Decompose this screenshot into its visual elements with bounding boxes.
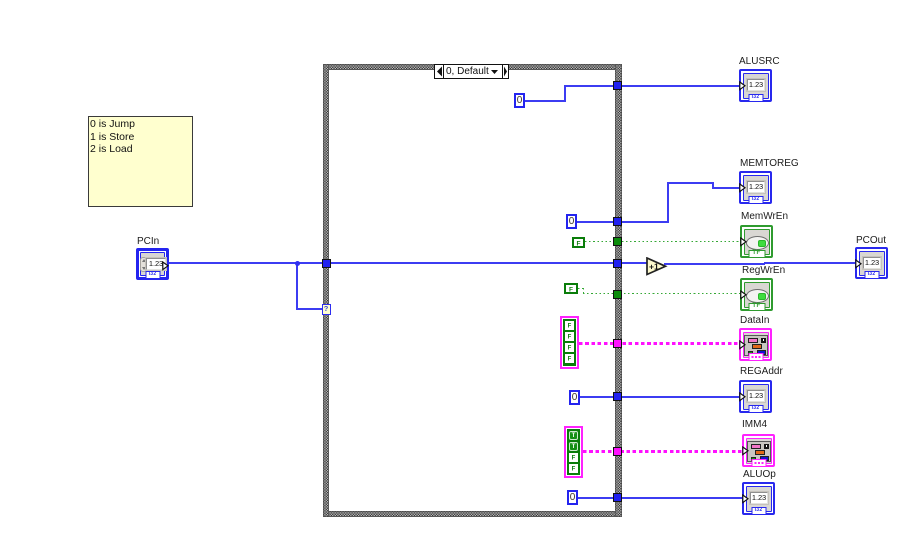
wire MEMTOREG const to tunnel [577,221,613,223]
svg-text:+1: +1 [649,262,659,272]
terminal RegWrEn (boolean indicator) [740,278,773,311]
wire PC main: PCIn to +1 [169,262,647,264]
constant 0 (ALUOp) [567,490,578,505]
cluster constant TTFF (IMM4) [564,426,583,478]
wire RegWrEn vertical jog [583,288,584,295]
wire PC branch vertical to selector [296,262,298,310]
label MEMTOREG [740,158,799,169]
wire MEMTOREG horizontal mid [667,182,714,184]
tunnel ALUOp (blue) [613,493,622,502]
label IMM4 [742,419,767,430]
constant F (MemWrEn) [572,237,585,248]
terminal ALUOp (numeric indicator I32) [742,482,775,515]
wire PC main: +1 to jog [664,263,765,265]
constant 0 (MEMTOREG) [566,214,577,229]
terminal ALUSRC (numeric indicator I32) [739,69,772,102]
tunnel PC left (blue) [322,259,331,268]
tunnel REGAddr (blue) [613,392,622,401]
wire PC main: jog to PCOut [764,262,856,264]
label RegWrEn [742,265,785,276]
constant 0 (ALUSRC) [514,93,525,108]
terminal PCIn (numeric control I32) [136,248,169,280]
tunnel MEMTOREG (blue) [613,217,622,226]
label REGAddr [740,366,783,377]
terminal DataIn (cluster indicator) [739,328,772,361]
wire RegWrEn stub [578,288,585,289]
tunnel DataIn (magenta) [613,339,622,348]
wire ALUSRC vertical [564,85,566,102]
wire junction dot [295,261,300,266]
label ALUOp [743,469,776,480]
comment box "0 is Jump / 1 is Store / 2 is Load" [88,116,193,207]
selector tunnel "?" [322,304,331,315]
wire DataIn dashed magenta [579,342,740,345]
wire ALUSRC const stub [525,100,566,102]
wire PC branch horizontal to selector [296,308,323,310]
case structure top border [323,64,622,70]
terminal REGAddr (numeric indicator I32) [739,380,772,413]
terminal MemWrEn (boolean indicator) [740,225,773,258]
case structure bottom border [323,511,622,517]
constant 0 (REGAddr) [569,390,580,405]
wire ALUOp blue [578,497,742,499]
cluster constant FFFF (DataIn) [560,316,579,369]
label PCIn [137,236,159,247]
increment +1 node [646,257,668,277]
tunnel PC right (blue) [613,259,622,268]
label DataIn [740,315,769,326]
constant F (RegWrEn) [564,283,578,294]
tunnel MemWrEn (green) [613,237,622,246]
wire MEMTOREG vertical jog [712,182,714,189]
wire MEMTOREG to terminal [712,187,740,189]
wire IMM4 dashed magenta [583,450,742,453]
case structure right border [615,64,622,517]
wire MEMTOREG tunnel to elbow [622,221,669,223]
case selector label "0, Default" [434,64,509,79]
wire MEMTOREG vertical up [667,182,669,223]
terminal PCOut (numeric indicator I32) [855,247,888,279]
wire ALUSRC horizontal to terminal [564,85,740,87]
tunnel RegWrEn (green) [613,290,622,299]
tunnel ALUSRC (blue) [613,81,622,90]
terminal MEMTOREG (numeric indicator I32) [739,171,772,204]
label MemWrEn [741,211,788,222]
wire RegWrEn dotted green to terminal [583,293,740,294]
case structure left border [323,64,329,517]
label PCOut [856,235,886,246]
label ALUSRC [739,56,780,67]
wire REGAddr blue [579,396,740,398]
wire MemWrEn dotted green [585,241,740,242]
terminal IMM4 (cluster indicator) [742,434,775,467]
tunnel IMM4 (magenta) [613,447,622,456]
